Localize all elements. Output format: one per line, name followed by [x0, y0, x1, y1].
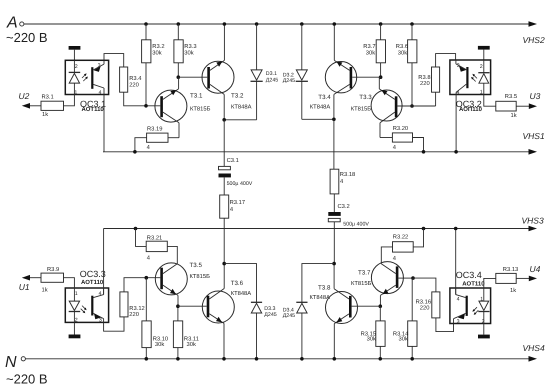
svg-text:30k: 30k: [367, 336, 376, 343]
wire VHS1 rail: [104, 151, 532, 153]
wire R3.16 to OC3.4 pin3: [436, 318, 454, 332]
transistor T3.7: [371, 262, 403, 294]
wire R3.13 to U4 arrow: [516, 277, 529, 279]
svg-text:T3.8: T3.8: [318, 284, 331, 291]
svg-text:T3.7: T3.7: [358, 270, 371, 277]
transistor T3.4: [325, 61, 356, 92]
wire phase-A top rail: [24, 23, 532, 25]
svg-text:T3.1: T3.1: [190, 93, 203, 100]
svg-text:Д245: Д245: [264, 312, 276, 318]
resistor R3.7: [379, 22, 383, 26]
resistor R3.13: [496, 273, 516, 283]
transistor T3.5: [155, 263, 187, 295]
resistor R3.10: [145, 278, 147, 321]
wire OC3.1 pin1 to R3.1: [64, 95, 75, 106]
svg-text:КТ815Б: КТ815Б: [351, 280, 372, 287]
wire R3.1 to U2 arrow: [30, 105, 42, 107]
node A terminal: [20, 22, 24, 26]
svg-text:R3.9: R3.9: [47, 266, 59, 273]
svg-text:30k: 30k: [155, 341, 164, 348]
OC3.1 light arrows: [82, 74, 86, 78]
wire D3.2 to T3.4 emitter node: [302, 118, 334, 120]
svg-text:30k: 30k: [184, 49, 193, 56]
svg-text:3: 3: [457, 319, 460, 325]
chassis bar below OC3.3: [73, 322, 75, 334]
diode D3.1: [255, 22, 259, 26]
wire OC3.3 pin4 to VHS3: [103, 229, 105, 295]
optocoupler OC3.4 box: [450, 288, 491, 324]
svg-text:R3.18: R3.18: [340, 171, 355, 178]
OC3.2 phototransistor: [466, 67, 468, 88]
resistor R3.4: [120, 67, 128, 92]
optocoupler OC3.3 box: [65, 288, 108, 322]
wire OC3.1 pin3 to R3.4: [104, 54, 124, 67]
svg-text:T3.3: T3.3: [359, 94, 372, 101]
svg-text:T3.5: T3.5: [190, 262, 203, 269]
chassis bar above OC3.1: [69, 46, 81, 50]
wire R3.9 to U1 arrow: [30, 277, 42, 279]
wire OC3.4 pin4 to VHS3: [455, 229, 457, 295]
svg-text:КТ848А: КТ848А: [310, 104, 331, 111]
svg-text:1k: 1k: [511, 112, 517, 119]
svg-text:R3.1: R3.1: [42, 94, 54, 101]
svg-text:R3.20: R3.20: [393, 125, 408, 132]
wire OC3.2 pin1 to R3.5: [484, 95, 496, 107]
OC3.3 light arrows: [82, 306, 86, 310]
svg-text:R3.21: R3.21: [147, 234, 162, 241]
resistor R3.20: [392, 133, 412, 142]
resistor R3.6: [410, 22, 414, 26]
transistor T3.3: [371, 90, 402, 121]
resistor R3.1: [41, 101, 64, 110]
OC3.4 light arrows: [473, 307, 477, 311]
svg-text:C3.1: C3.1: [227, 157, 239, 164]
svg-text:R3.13: R3.13: [503, 266, 518, 273]
svg-text:U3: U3: [530, 91, 541, 101]
wire D3.1 to T3.2 emitter node: [224, 119, 256, 121]
svg-text:U1: U1: [19, 282, 30, 292]
svg-text:T3.4: T3.4: [318, 94, 331, 101]
svg-text:КТ848А: КТ848А: [231, 104, 252, 111]
svg-text:АОТ110: АОТ110: [462, 281, 485, 288]
svg-text:A: A: [6, 15, 18, 32]
svg-text:1k: 1k: [42, 111, 48, 118]
svg-text:D3.1: D3.1: [266, 71, 277, 77]
svg-text:1k: 1k: [42, 287, 48, 294]
svg-text:220: 220: [129, 82, 139, 89]
resistor R3.5: [496, 101, 516, 111]
resistor R3.19: [147, 133, 168, 142]
wire VHS3 rail: [104, 228, 532, 230]
optocoupler OC3.1 box: [65, 60, 108, 94]
resistor R3.12: [120, 292, 128, 317]
svg-text:OC3.3: OC3.3: [80, 269, 106, 279]
OC3.2 light arrows: [473, 75, 477, 79]
svg-text:Д245: Д245: [283, 313, 295, 319]
OC3.2 LED: [483, 60, 485, 73]
resistor R3.18: [333, 119, 335, 169]
resistor R3.2: [144, 22, 148, 26]
svg-text:T3.6: T3.6: [231, 280, 244, 287]
svg-text:3: 3: [99, 318, 102, 324]
svg-text:АОП110: АОП110: [459, 106, 483, 113]
svg-text:1k: 1k: [510, 287, 516, 294]
wire R3.4 to T3.1 base: [124, 92, 161, 106]
wire OC3.3 pin3 to R3.12: [104, 317, 124, 331]
resistor R3.14: [411, 278, 413, 321]
diode D3.2: [300, 22, 304, 26]
svg-text:R3.16: R3.16: [416, 298, 431, 305]
svg-text:1: 1: [75, 291, 78, 297]
OC3.3 phototransistor: [91, 296, 93, 316]
capacitor C3.2: [328, 212, 340, 216]
svg-text:2: 2: [480, 64, 483, 70]
svg-text:КТ815Б: КТ815Б: [351, 105, 372, 112]
svg-text:КТ815Б: КТ815Б: [190, 273, 211, 280]
svg-text:30k: 30k: [187, 341, 196, 348]
svg-text:N: N: [5, 354, 17, 371]
svg-text:2: 2: [75, 317, 78, 323]
resistor R3.9: [41, 273, 64, 282]
svg-text:~220 В: ~220 В: [6, 30, 48, 45]
svg-text:КТ848А: КТ848А: [310, 294, 331, 301]
resistor R3.16: [413, 278, 436, 292]
svg-text:R3.17: R3.17: [230, 199, 245, 206]
svg-text:VHS3: VHS3: [522, 216, 544, 226]
resistor R3.17: [220, 195, 229, 218]
wire OC3.3 pin1 to R3.9: [64, 278, 75, 288]
svg-text:30k: 30k: [399, 336, 408, 343]
svg-text:VHS2: VHS2: [523, 35, 545, 45]
svg-text:1: 1: [480, 89, 483, 95]
resistor R3.15: [379, 306, 381, 321]
wire R3.5 to U3 arrow: [516, 105, 529, 107]
OC3.1 phototransistor: [91, 67, 93, 89]
capacitor C3.1: [223, 120, 225, 167]
diode D3.3: [224, 264, 256, 303]
transistor T3.1: [155, 90, 187, 122]
svg-text:220: 220: [420, 80, 430, 87]
transistor T3.8: [326, 292, 358, 324]
svg-text:VHS1: VHS1: [523, 131, 545, 141]
svg-text:АОТ110: АОТ110: [82, 106, 105, 113]
svg-text:R3.6: R3.6: [396, 43, 408, 50]
svg-text:R3.19: R3.19: [147, 125, 162, 132]
OC3.4 LED: [483, 288, 485, 301]
wire R3.12 to T3.5 base: [124, 278, 160, 292]
svg-text:220: 220: [129, 311, 139, 318]
svg-text:~220 В: ~220 В: [6, 372, 48, 387]
OC3.1 LED: [73, 60, 75, 72]
svg-text:30k: 30k: [398, 49, 407, 56]
svg-text:R3.2: R3.2: [152, 43, 164, 50]
chassis bar below OC3.4: [483, 324, 485, 335]
svg-text:R3.5: R3.5: [505, 93, 517, 100]
svg-text:КТ848А: КТ848А: [231, 290, 252, 297]
transistor T3.2: [202, 61, 234, 93]
svg-text:Д245: Д245: [283, 78, 295, 84]
svg-text:500µ 400V: 500µ 400V: [343, 221, 369, 227]
svg-text:500µ 400V: 500µ 400V: [227, 181, 253, 187]
wire OC3.4 pin1 to R3.13: [484, 278, 496, 288]
svg-text:4: 4: [457, 296, 460, 302]
svg-text:VHS4: VHS4: [523, 343, 545, 353]
resistor R3.11: [177, 306, 179, 321]
resistor R3.21: [134, 227, 138, 231]
svg-text:OC3.4: OC3.4: [456, 270, 482, 280]
wire OC3.2 pin4 to VHS1: [455, 95, 457, 152]
svg-text:R3.3: R3.3: [184, 43, 196, 50]
optocoupler OC3.2 box: [450, 60, 491, 95]
OC3.3 LED: [73, 288, 75, 301]
node N terminal: [21, 357, 25, 361]
svg-text:C3.2: C3.2: [338, 203, 350, 210]
chassis bar above OC3.2: [478, 46, 490, 50]
resistor R3.22: [422, 227, 426, 231]
wire OC3.1 pin4 to VHS1: [103, 95, 105, 152]
OC3.4 phototransistor: [466, 296, 468, 316]
transistor T3.6: [202, 291, 234, 323]
svg-text:2: 2: [75, 64, 78, 70]
svg-text:КТ815Б: КТ815Б: [190, 105, 211, 112]
wire neutral bottom rail: [26, 358, 532, 360]
svg-text:U4: U4: [530, 264, 541, 274]
resistor R3.8: [436, 54, 456, 67]
svg-text:R3.7: R3.7: [363, 43, 375, 50]
svg-text:T3.2: T3.2: [231, 93, 244, 100]
svg-text:U2: U2: [19, 91, 30, 101]
diode D3.4: [302, 264, 334, 303]
resistor R3.3: [177, 22, 181, 26]
svg-text:220: 220: [420, 304, 430, 311]
svg-text:R3.22: R3.22: [393, 234, 408, 241]
svg-text:АОТ110: АОТ110: [81, 279, 104, 286]
svg-text:Д245: Д245: [266, 78, 278, 84]
svg-text:30k: 30k: [152, 49, 161, 56]
svg-text:4: 4: [99, 90, 102, 96]
svg-text:30k: 30k: [366, 49, 375, 56]
svg-text:R3.4: R3.4: [129, 75, 142, 82]
